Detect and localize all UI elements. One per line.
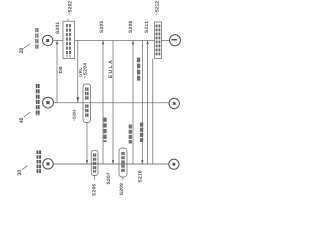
wire message M5 x113 [112, 40, 114, 164]
wire message M4 x103 [102, 40, 104, 164]
inline data labels [58, 58, 142, 144]
svg-text:S208: S208 [128, 21, 134, 33]
arrow up M4 at L1 [102, 41, 104, 45]
arrow up M1 at L1 [56, 41, 58, 45]
entity label E1 (keyer) [19, 28, 38, 54]
node circle C2 (server start) [43, 97, 54, 108]
wire message M6 x133 [132, 40, 134, 164]
wire lifeline L3 (orderer terminal) [53, 163, 169, 165]
node circle C1 (keyer start) [43, 35, 53, 45]
label blob (tabulation result) [137, 58, 140, 82]
arrow down M3 at L3 [86, 160, 88, 164]
arrowheads [56, 41, 149, 164]
svg-text:S205: S205 [99, 21, 105, 33]
capsule P1 URL (on L2) [83, 84, 91, 123]
wire message M2 x75.5 [77, 41, 79, 103]
svg-text:S209: S209 [119, 183, 125, 195]
wire lifeline L1 (keyer) [53, 39, 170, 41]
wire message M8 x148 [147, 41, 149, 164]
label blob (approve) [129, 125, 132, 144]
svg-text:~S202: ~S202 [67, 1, 73, 16]
node circle C5 (server end) [169, 98, 179, 108]
arrow down M7 at L3 [141, 160, 143, 164]
entity label E3 (orderer terminal) [17, 151, 40, 176]
arrow down M5 at L3 [112, 160, 114, 164]
stub below capsule P2 [94, 176, 96, 181]
stub below capsule P3 [122, 177, 124, 180]
svg-text:S206: S206 [91, 184, 97, 196]
svg-text:S210: S210 [137, 170, 143, 182]
wire message M9 x153 [152, 59, 154, 165]
arrow up M6 at L1 [132, 41, 134, 45]
leader 30 [22, 166, 28, 170]
node circle C6 (orderer end) [169, 159, 179, 169]
box B1 text blob [67, 24, 70, 57]
entity label E2 (server) [19, 84, 39, 123]
wire message M7 x141 [141, 41, 143, 164]
svg-text:~S204: ~S204 [82, 63, 88, 79]
svg-text:~S212: ~S212 [155, 1, 161, 16]
svg-text:S211: S211 [144, 21, 150, 33]
arrow up M8 at L1 [146, 41, 148, 45]
svg-text:S201: S201 [55, 22, 61, 34]
svg-text:EULA: EULA [108, 59, 114, 79]
wire message M1 x57 [56, 41, 58, 103]
label blob (text send) [103, 118, 106, 143]
wire message M3 x88.5 [86, 123, 88, 165]
svg-text:S207: S207 [106, 172, 112, 184]
node circle C3 (orderer start) [43, 159, 53, 169]
box B2 text blob [157, 25, 160, 57]
leader 40 [24, 112, 30, 117]
svg-text:URL: URL [78, 67, 83, 77]
leader 20 [23, 44, 30, 49]
svg-text:40: 40 [19, 117, 25, 123]
stub above box B1 [67, 19, 69, 22]
process box B2 (S212) [155, 22, 162, 59]
arrow down M2 at L2 [77, 97, 80, 103]
svg-text:20: 20 [19, 48, 25, 54]
node circle C4 (keyer end) [170, 35, 181, 46]
step labels (rotated) [55, 1, 161, 196]
svg-text:~S203: ~S203 [71, 109, 76, 121]
label blob (send back) [140, 123, 143, 143]
svg-text:30: 30 [17, 170, 23, 176]
capsule P3 (on L3 right) [119, 148, 127, 180]
wire lifeline L2 (server) [53, 102, 168, 104]
process box B1 (S202) [63, 19, 75, 59]
svg-text:DB: DB [58, 66, 63, 74]
capsule P2 (on L3 left) [91, 150, 98, 180]
